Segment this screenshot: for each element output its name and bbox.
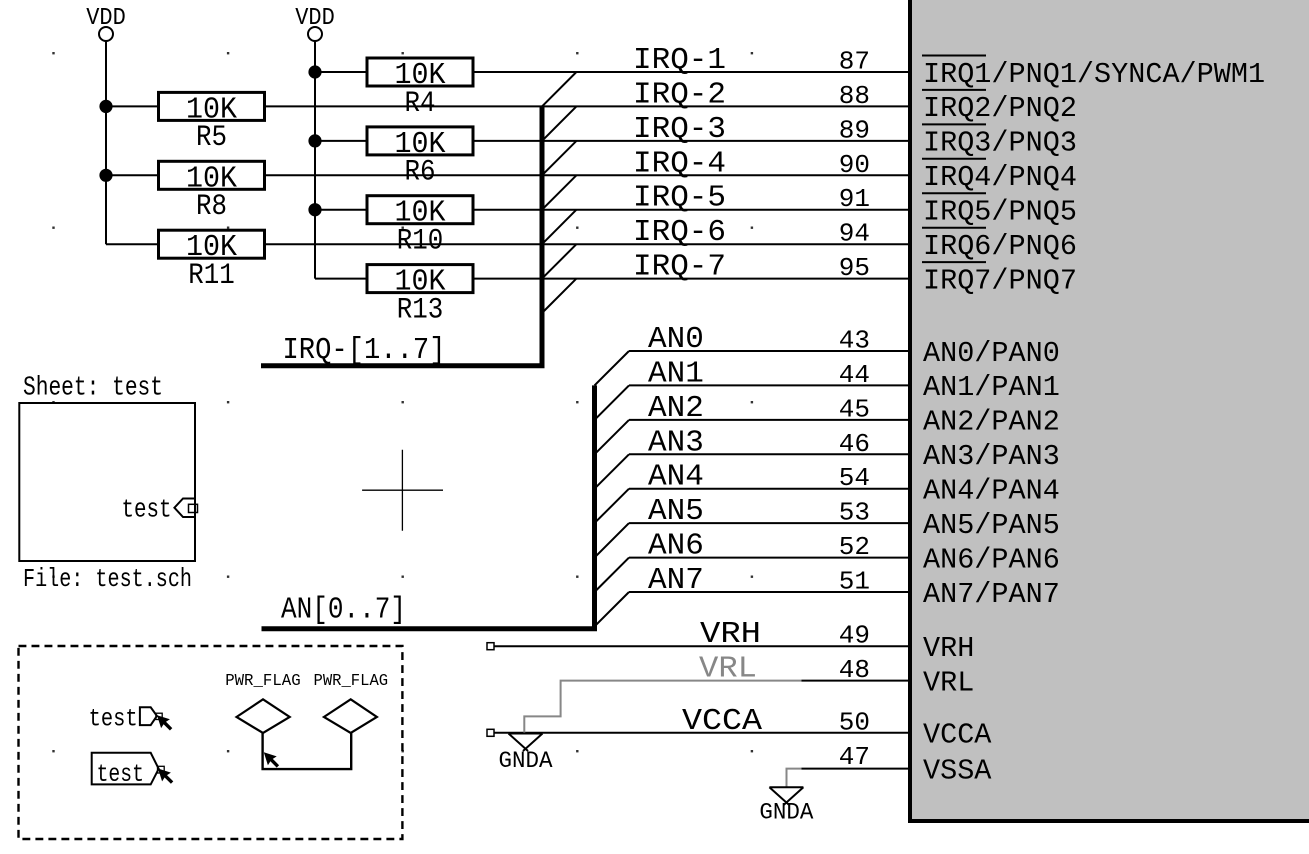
svg-text:test: test <box>97 760 144 789</box>
svg-text:R8: R8 <box>196 190 227 224</box>
svg-text:AN5/PAN5: AN5/PAN5 <box>923 509 1060 542</box>
svg-text:AN7/PAN7: AN7/PAN7 <box>923 578 1060 611</box>
svg-text:AN3: AN3 <box>648 425 704 460</box>
svg-text:45: 45 <box>839 394 870 424</box>
svg-text:VCCA: VCCA <box>923 719 992 752</box>
svg-text:87: 87 <box>839 47 870 77</box>
svg-text:VSSA: VSSA <box>923 754 992 787</box>
svg-text:Sheet: test: Sheet: test <box>23 372 163 402</box>
svg-text:VRL: VRL <box>699 652 757 687</box>
svg-text:IRQ6/PNQ6: IRQ6/PNQ6 <box>923 230 1077 263</box>
svg-text:94: 94 <box>839 219 870 249</box>
svg-text:AN7: AN7 <box>648 563 704 598</box>
svg-text:VRH: VRH <box>700 617 761 652</box>
svg-text:47: 47 <box>839 742 870 772</box>
svg-text:48: 48 <box>839 655 870 685</box>
svg-text:50: 50 <box>839 707 870 737</box>
svg-text:IRQ-2: IRQ-2 <box>633 77 726 112</box>
svg-text:PWR_FLAG: PWR_FLAG <box>314 671 389 690</box>
svg-text:AN0: AN0 <box>648 322 704 357</box>
svg-text:PWR_FLAG: PWR_FLAG <box>225 671 301 690</box>
svg-text:IRQ-7: IRQ-7 <box>633 250 726 285</box>
svg-text:IRQ2/PNQ2: IRQ2/PNQ2 <box>923 92 1077 125</box>
svg-text:IRQ-[1..7]: IRQ-[1..7] <box>283 333 446 368</box>
svg-text:IRQ5/PNQ5: IRQ5/PNQ5 <box>923 196 1077 229</box>
svg-text:R10: R10 <box>397 225 444 259</box>
svg-text:R5: R5 <box>196 121 227 155</box>
svg-text:AN1: AN1 <box>648 356 704 391</box>
svg-text:IRQ-5: IRQ-5 <box>633 181 726 216</box>
svg-text:54: 54 <box>839 463 870 493</box>
svg-text:R13: R13 <box>397 293 444 327</box>
svg-text:GNDA: GNDA <box>499 748 553 774</box>
svg-text:AN[0..7]: AN[0..7] <box>281 593 406 628</box>
svg-text:VCCA: VCCA <box>682 704 762 739</box>
svg-text:46: 46 <box>839 429 870 459</box>
svg-text:53: 53 <box>839 498 870 528</box>
svg-text:AN6: AN6 <box>648 529 704 564</box>
svg-text:IRQ-4: IRQ-4 <box>633 146 726 181</box>
svg-text:R6: R6 <box>405 156 436 190</box>
svg-text:VRH: VRH <box>923 632 974 665</box>
svg-text:51: 51 <box>839 567 870 597</box>
svg-text:49: 49 <box>839 621 870 651</box>
svg-text:IRQ1/PNQ1/SYNCA/PWM1: IRQ1/PNQ1/SYNCA/PWM1 <box>923 58 1265 91</box>
svg-text:AN4: AN4 <box>648 460 704 495</box>
svg-text:AN0/PAN0: AN0/PAN0 <box>923 337 1060 370</box>
svg-text:VDD: VDD <box>86 5 126 32</box>
svg-text:R4: R4 <box>405 87 436 121</box>
svg-text:AN2: AN2 <box>648 391 704 426</box>
svg-text:44: 44 <box>839 360 870 390</box>
svg-text:IRQ-3: IRQ-3 <box>633 112 726 147</box>
svg-text:IRQ7/PNQ7: IRQ7/PNQ7 <box>923 264 1077 297</box>
svg-text:IRQ-1: IRQ-1 <box>633 43 726 78</box>
svg-text:AN1/PAN1: AN1/PAN1 <box>923 371 1060 404</box>
svg-text:VDD: VDD <box>295 5 335 32</box>
svg-text:R11: R11 <box>188 259 235 293</box>
svg-text:AN3/PAN3: AN3/PAN3 <box>923 440 1060 473</box>
svg-text:IRQ4/PNQ4: IRQ4/PNQ4 <box>923 161 1077 194</box>
svg-text:VRL: VRL <box>923 666 974 699</box>
svg-text:IRQ3/PNQ3: IRQ3/PNQ3 <box>923 127 1077 160</box>
svg-text:test: test <box>89 705 138 734</box>
svg-text:52: 52 <box>839 532 870 562</box>
svg-text:test: test <box>122 496 172 525</box>
svg-text:43: 43 <box>839 326 870 356</box>
svg-text:90: 90 <box>839 150 870 180</box>
svg-text:88: 88 <box>839 81 870 111</box>
svg-text:AN4/PAN4: AN4/PAN4 <box>923 475 1060 508</box>
svg-text:AN6/PAN6: AN6/PAN6 <box>923 543 1060 576</box>
svg-text:File: test.sch: File: test.sch <box>23 564 192 594</box>
svg-text:89: 89 <box>839 115 870 145</box>
svg-text:AN5: AN5 <box>648 494 704 529</box>
svg-text:95: 95 <box>839 253 870 283</box>
svg-text:IRQ-6: IRQ-6 <box>633 215 726 250</box>
svg-text:AN2/PAN2: AN2/PAN2 <box>923 406 1060 439</box>
svg-text:91: 91 <box>839 184 870 214</box>
svg-text:GNDA: GNDA <box>759 799 813 825</box>
